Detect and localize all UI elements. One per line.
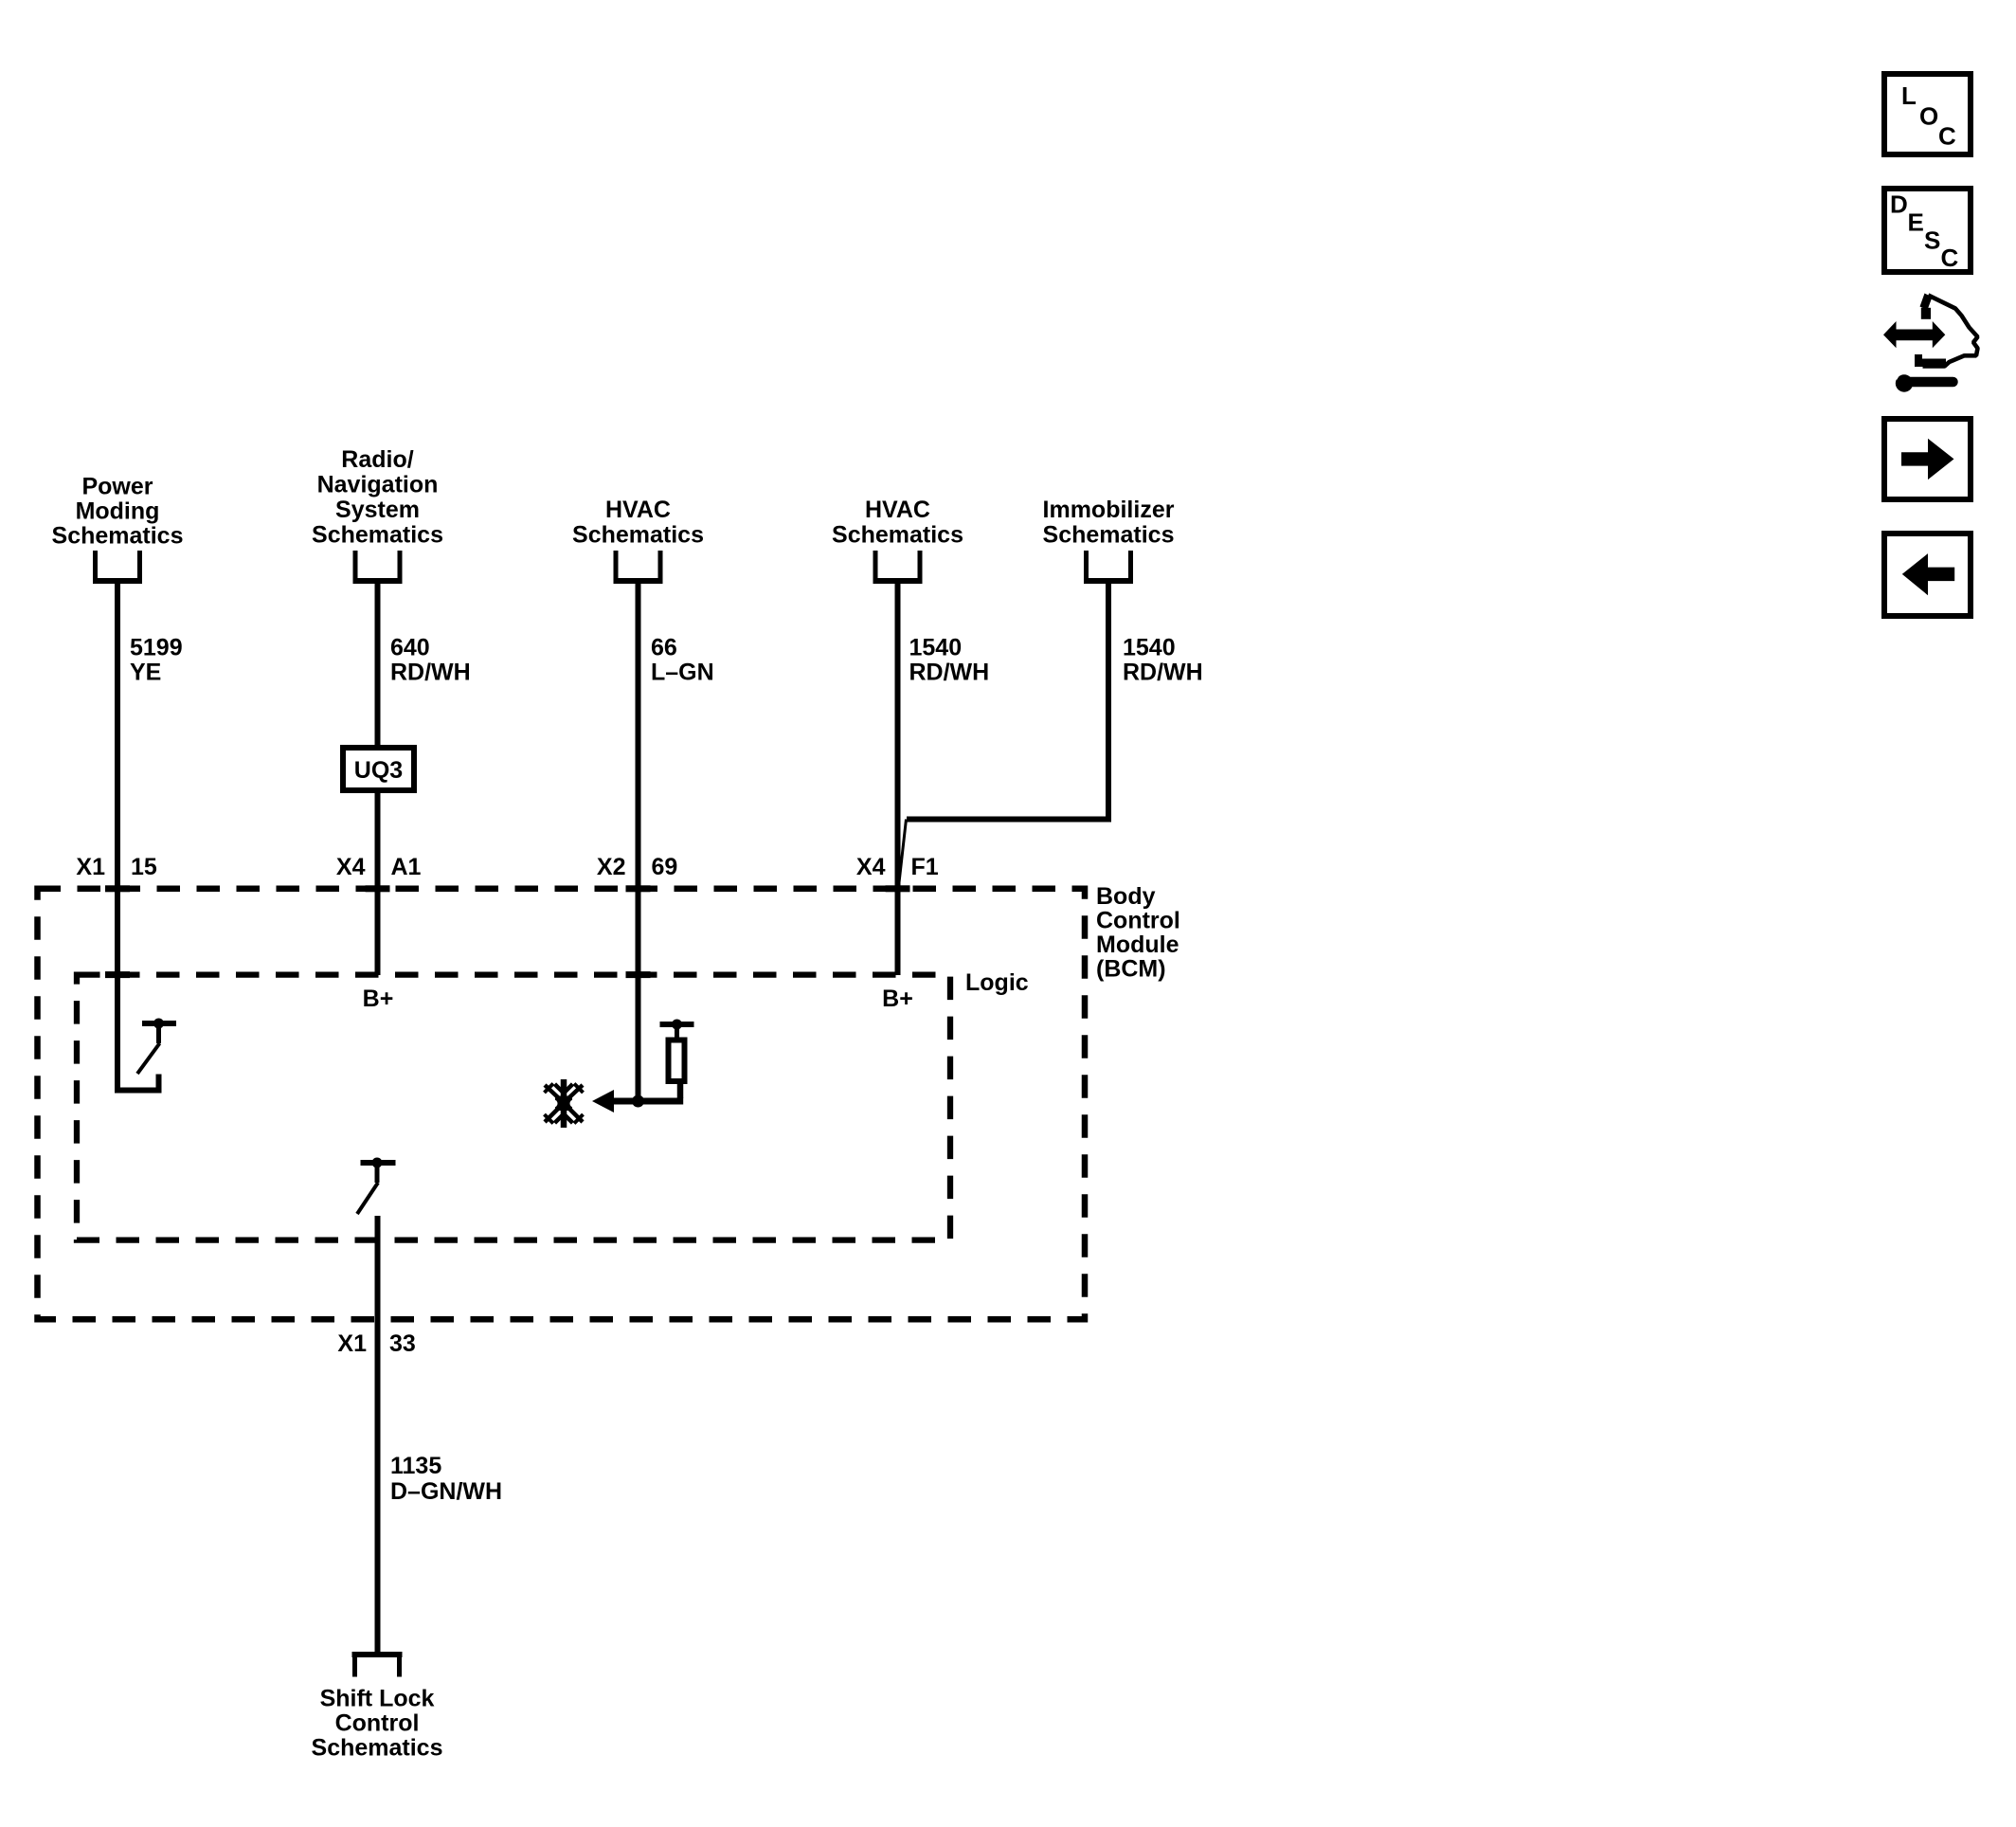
pin tick col3 at Logic box (626, 971, 651, 978)
wire label 66 L-GN (651, 635, 714, 686)
node label: HVAC Schematics (right) (832, 497, 963, 549)
module label: Body Control Module (BCM) (1096, 883, 1180, 983)
icon back arrow box (1884, 534, 1971, 616)
svg-text:D: D (1890, 190, 1908, 219)
junction dot on circuit 66 (632, 1095, 644, 1108)
wire circuit 1135 D-GN/WH (BCM pin X1-33 to Shift Lock Control) (375, 1216, 381, 1655)
icon vehicle outline with double arrow and wrench (1883, 294, 1978, 392)
wire label 1540 RD/WH (HVAC) (909, 635, 990, 686)
svg-text:UQ3: UQ3 (354, 757, 403, 784)
svg-text:L–GN: L–GN (651, 660, 714, 686)
wire circuit 640 RD/WH upper segment (Radio feed to UQ3) (375, 584, 381, 745)
svg-text:A1: A1 (391, 854, 422, 880)
svg-text:Module: Module (1096, 932, 1179, 958)
svg-text:Body: Body (1096, 883, 1156, 910)
node label: Radio/Navigation System Schematics (312, 446, 443, 549)
module outline: Body Control Module (BCM) dashed box (38, 889, 1086, 1320)
svg-text:Control: Control (335, 1710, 420, 1737)
wire circuit 640 RD/WH lower segment (UQ3 to BCM pin X4-A1, B+) (375, 793, 381, 975)
pin label X4 F1 (856, 854, 939, 880)
svg-text:HVAC: HVAC (865, 497, 930, 523)
wire circuit 66 L-GN (HVAC feed to BCM pin X2-69 and A/C logic junction) (636, 584, 641, 1101)
svg-text:X2: X2 (597, 854, 626, 880)
icon LOC box (1884, 74, 1971, 154)
off-page connector bracket: Radio/Navigation System Schematics (353, 551, 403, 581)
wire label 1540 RD/WH (Immobilizer) (1123, 635, 1203, 686)
pin label X1 15 (76, 854, 156, 880)
pin tick col1 at Logic box (105, 971, 130, 978)
svg-text:5199: 5199 (130, 635, 183, 661)
node label: Immobilizer Schematics (1043, 497, 1175, 549)
icon forward arrow box (1884, 419, 1971, 499)
svg-text:1540: 1540 (1123, 635, 1176, 661)
wire circuit 5199 YE (Power Moding feed into BCM pin X1-15, L-shape to switch contact) (117, 584, 159, 1091)
pin label X2 69 (597, 854, 677, 880)
off-page connector bracket: HVAC Schematics (66 L-GN) (614, 551, 663, 581)
wire resistor leg to junction and arrow (612, 1098, 683, 1105)
wire splice diagonal into pin X4-F1 (898, 820, 907, 894)
off-page connector bracket: Shift Lock Control Schematics (352, 1655, 403, 1677)
wire circuit 1540 RD/WH (Immobilizer feed, elbow joining pin X4-F1) (907, 584, 1108, 820)
svg-text:O: O (1919, 102, 1938, 131)
svg-text:X4: X4 (856, 854, 886, 880)
icon DESC box (1884, 189, 1971, 272)
svg-text:RD/WH: RD/WH (390, 660, 471, 686)
arrow to A/C indicator (592, 1090, 614, 1112)
snowflake A/C symbol (545, 1079, 584, 1128)
svg-text:Schematics: Schematics (572, 522, 704, 549)
svg-text:D–GN/WH: D–GN/WH (390, 1478, 502, 1505)
node label: HVAC Schematics (left) (572, 497, 704, 549)
svg-text:Schematics: Schematics (52, 523, 184, 550)
svg-text:Control: Control (1096, 908, 1180, 934)
svg-text:Navigation: Navigation (317, 472, 439, 498)
wire label 1135 D-GN/WH (390, 1453, 502, 1505)
svg-text:640: 640 (390, 635, 430, 661)
svg-text:System: System (335, 497, 420, 523)
wire label 5199 YE (130, 635, 183, 686)
svg-text:Immobilizer: Immobilizer (1043, 497, 1175, 523)
svg-text:C: C (1938, 122, 1956, 151)
block outline: Logic dashed box (77, 975, 950, 1240)
svg-text:Schematics: Schematics (312, 522, 443, 549)
svg-text:1540: 1540 (909, 635, 963, 661)
svg-text:1135: 1135 (390, 1453, 441, 1479)
resistor R (A/C request pull-up) (660, 1020, 694, 1099)
svg-text:YE: YE (130, 660, 161, 686)
wire label 640 RD/WH (390, 635, 471, 686)
svg-text:Power: Power (81, 474, 153, 500)
svg-text:S: S (1924, 226, 1940, 255)
svg-text:HVAC: HVAC (605, 497, 671, 523)
wire circuit 1540 RD/WH (HVAC feed to BCM pin X4-F1, B+) (895, 584, 901, 975)
svg-text:L: L (1901, 81, 1917, 110)
svg-text:15: 15 (131, 854, 157, 880)
pin tick X4-F1 (886, 885, 910, 892)
svg-text:Radio/: Radio/ (341, 446, 413, 473)
svg-text:X4: X4 (336, 854, 366, 880)
svg-text:F1: F1 (911, 854, 939, 880)
node label: Shift Lock Control Schematics (312, 1686, 443, 1762)
svg-text:X1: X1 (337, 1330, 367, 1357)
pin tick X1-15 (105, 885, 130, 892)
svg-text:Shift Lock: Shift Lock (320, 1686, 435, 1712)
svg-text:Schematics: Schematics (1043, 522, 1175, 549)
pin tick X4-A1 (366, 885, 390, 892)
svg-text:B+: B+ (882, 986, 913, 1012)
svg-text:C: C (1941, 244, 1959, 272)
svg-text:RD/WH: RD/WH (1123, 660, 1203, 686)
svg-text:(BCM): (BCM) (1096, 956, 1166, 983)
svg-text:Moding: Moding (76, 498, 160, 525)
pin label X4 A1 (336, 854, 422, 880)
svg-text:66: 66 (651, 635, 677, 661)
off-page connector bracket: Power Moding Schematics (93, 551, 142, 581)
svg-text:Logic: Logic (965, 969, 1029, 996)
pin label X1 33 (337, 1330, 415, 1357)
svg-text:E: E (1908, 208, 1924, 237)
off-page connector bracket: HVAC Schematics (1540 RD/WH) (873, 551, 923, 581)
option box UQ3 (343, 748, 414, 790)
pin tick X2-69 (626, 885, 651, 892)
switch S1 (power moding input switch) (137, 1019, 176, 1075)
svg-text:RD/WH: RD/WH (909, 660, 990, 686)
svg-text:B+: B+ (363, 986, 394, 1012)
svg-text:Schematics: Schematics (832, 522, 963, 549)
svg-text:Schematics: Schematics (312, 1735, 443, 1762)
switch S2 (shift lock control output switch) (357, 1158, 396, 1215)
svg-text:X1: X1 (76, 854, 105, 880)
node label: Power Moding Schematics (52, 474, 184, 550)
off-page connector bracket: Immobilizer Schematics (1084, 551, 1133, 581)
svg-text:33: 33 (389, 1330, 416, 1357)
svg-text:69: 69 (652, 854, 678, 880)
